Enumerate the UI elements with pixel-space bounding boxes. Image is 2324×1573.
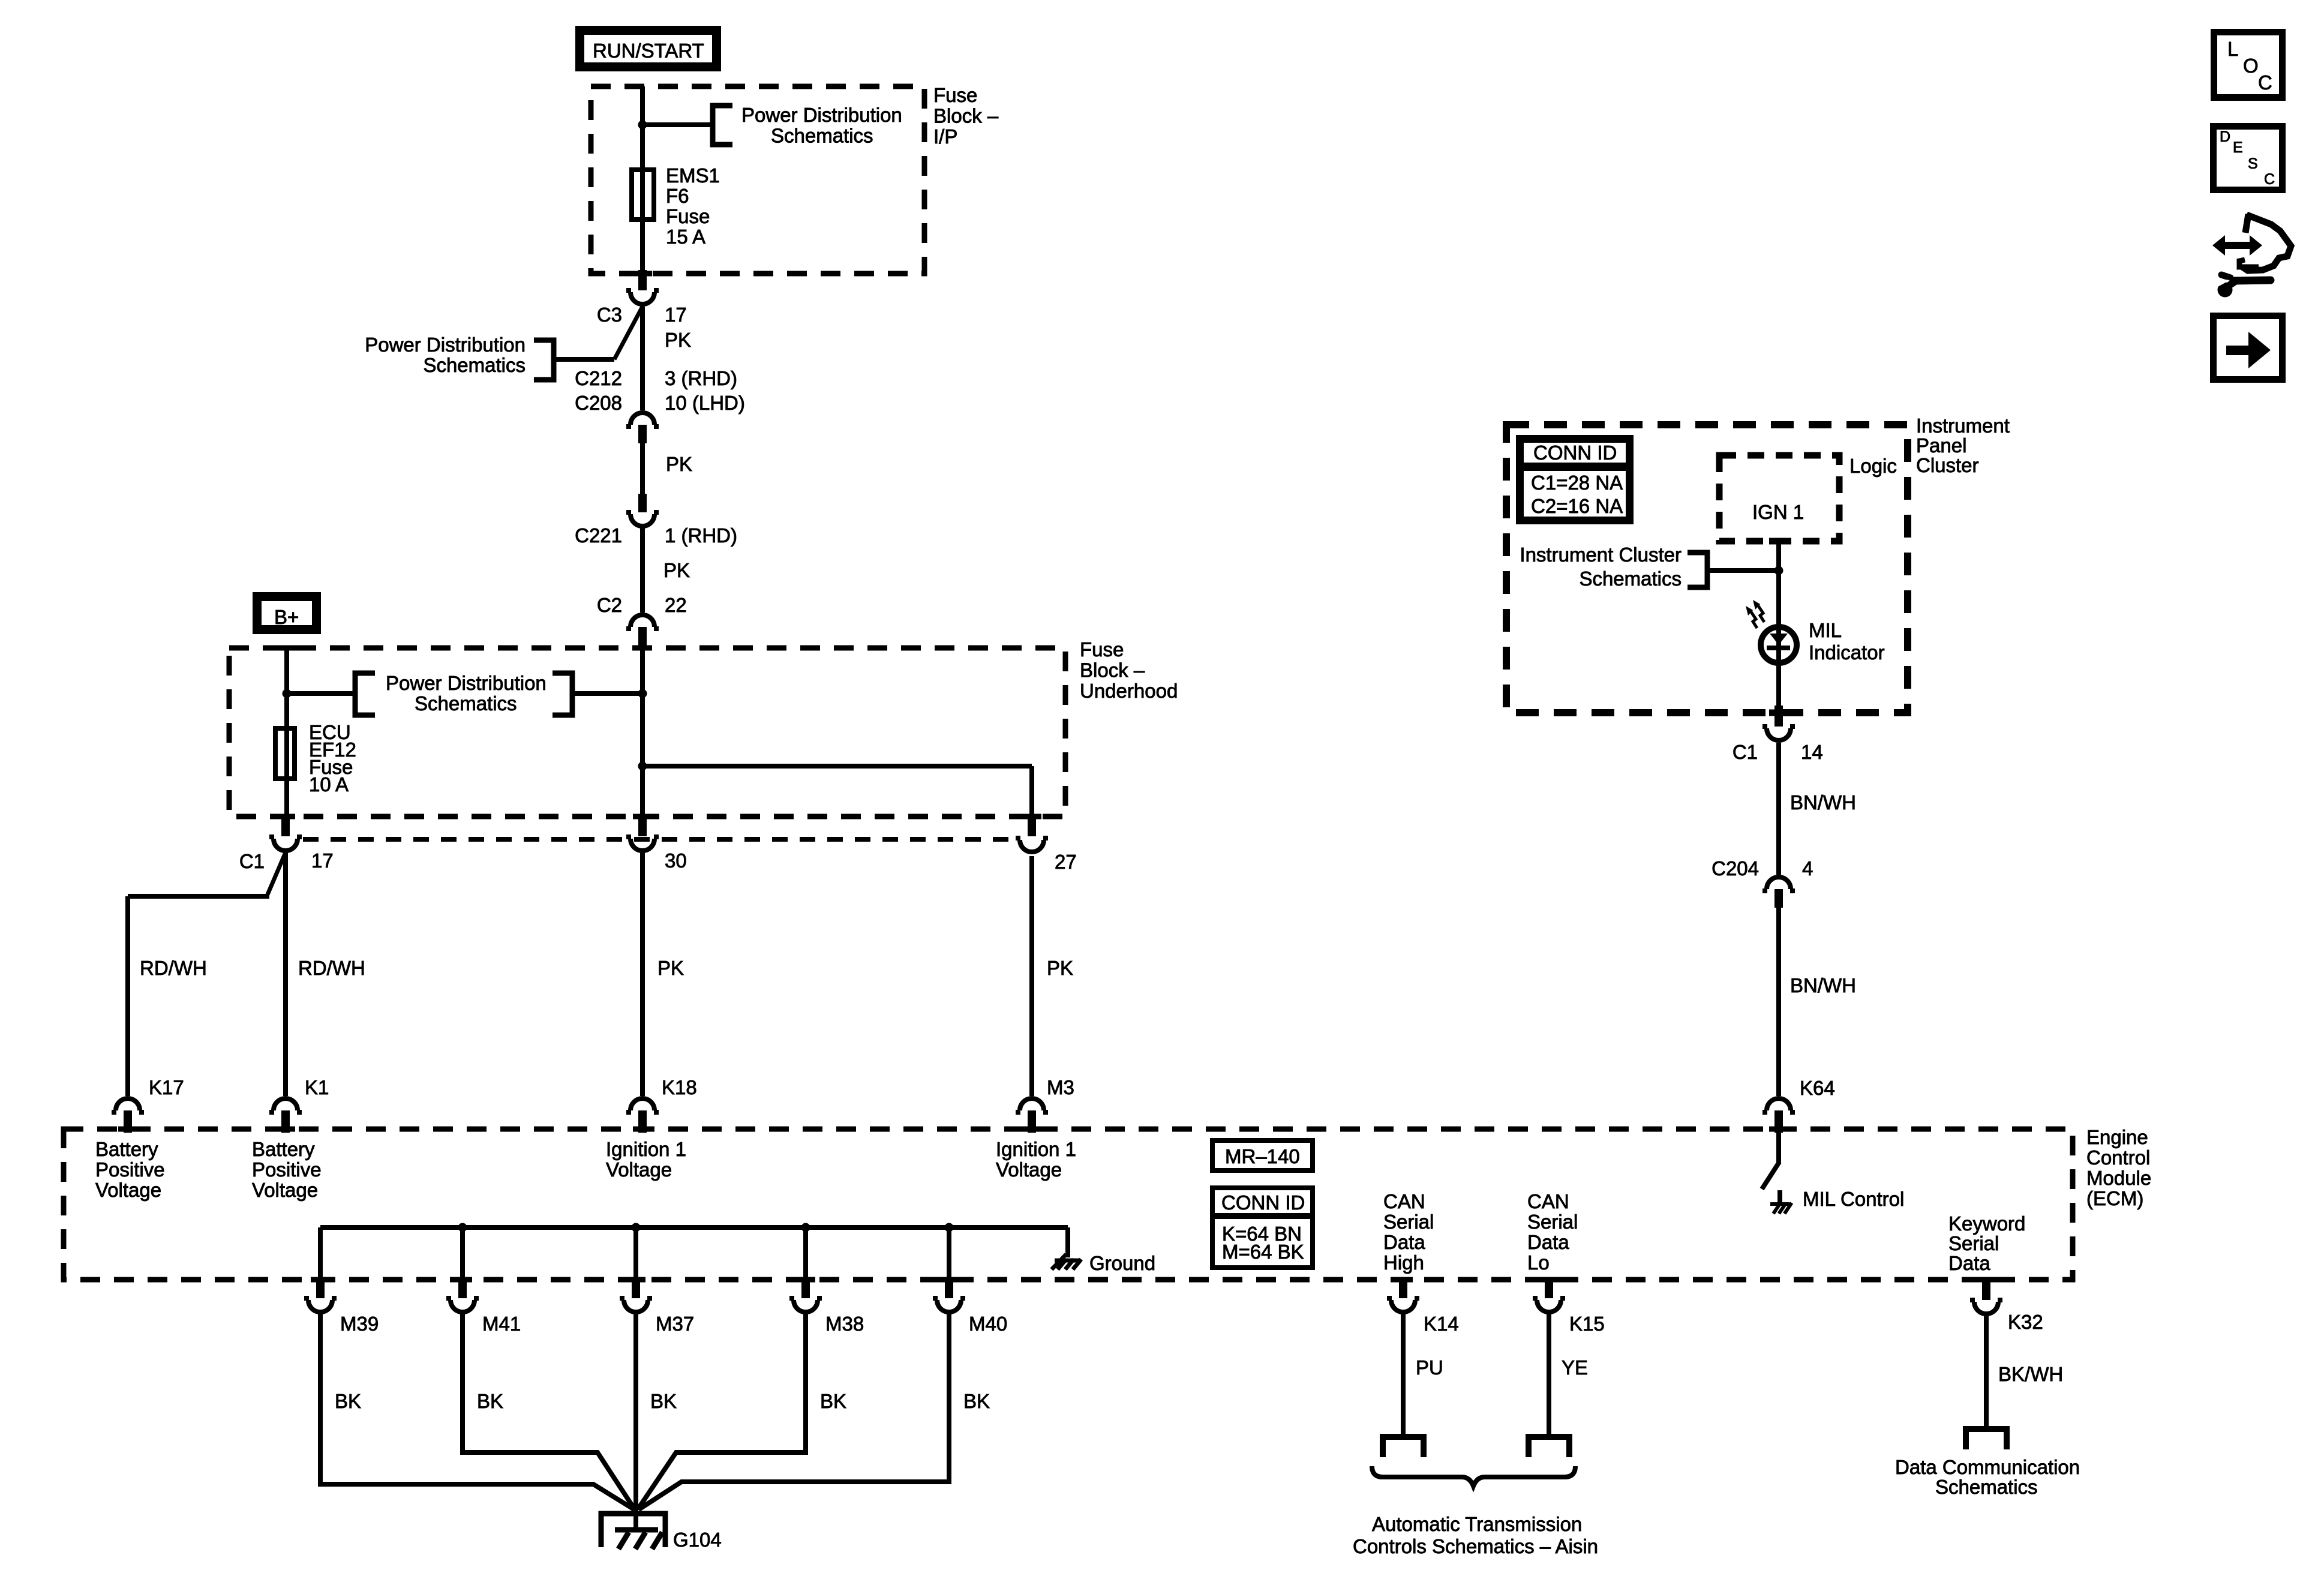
ground wire drop x=1582 xyxy=(947,1227,951,1280)
svg-text:Ground: Ground xyxy=(1089,1252,1155,1274)
svg-text:MIL Control: MIL Control xyxy=(1803,1188,1904,1210)
svg-text:Voltage: Voltage xyxy=(606,1158,672,1181)
svg-text:Engine: Engine xyxy=(2086,1126,2148,1148)
fuse block underhood dashed box xyxy=(229,648,1065,816)
svg-text:(ECM): (ECM) xyxy=(2086,1187,2143,1209)
connector terminal M38 xyxy=(789,1298,822,1312)
svg-text:CONN ID: CONN ID xyxy=(1533,442,1617,464)
junction ignition branch xyxy=(638,762,647,771)
wire to power distribution tab xyxy=(642,122,713,127)
connector K64 upper half at ECM xyxy=(1762,1098,1795,1112)
svg-text:C212: C212 xyxy=(575,367,622,389)
branch wire to pin 27 xyxy=(642,764,1032,769)
svg-text:BK: BK xyxy=(477,1390,503,1412)
junction on B+ wire xyxy=(283,689,292,698)
dash segment at ECM top x=476 xyxy=(276,1127,295,1132)
connector C212/C208 upper half xyxy=(626,413,659,427)
svg-text:4: 4 xyxy=(1802,857,1813,879)
ground wire M38 to G104 xyxy=(638,1314,806,1509)
dash segment at ECM bottom x=2339 xyxy=(1394,1277,1413,1283)
svg-text:14: 14 xyxy=(1801,741,1823,763)
MIL control chassis ground xyxy=(1770,1203,1792,1214)
svg-text:CAN: CAN xyxy=(1527,1190,1569,1212)
icon wrench jaw notch xyxy=(2212,278,2230,287)
svg-text:PK: PK xyxy=(657,957,684,979)
svg-text:K32: K32 xyxy=(2008,1311,2043,1333)
svg-text:Positive: Positive xyxy=(252,1158,322,1181)
svg-text:PK: PK xyxy=(666,453,692,475)
brace to automatic transmission schematics xyxy=(1372,1466,1575,1486)
junction to instrument cluster schematics xyxy=(1774,566,1783,575)
dash segment at ECM bottom x=1343 xyxy=(796,1277,815,1283)
icon wrench upper jaw xyxy=(2221,275,2230,278)
connector terminal K15 xyxy=(1533,1298,1565,1312)
svg-text:C221: C221 xyxy=(575,524,622,547)
svg-text:RUN/START: RUN/START xyxy=(593,40,704,62)
connector K1 upper half at ECM xyxy=(269,1098,302,1112)
svg-text:G104: G104 xyxy=(673,1529,722,1551)
svg-text:PU: PU xyxy=(1416,1356,1443,1379)
svg-text:M40: M40 xyxy=(969,1313,1007,1335)
connector C1 pin 17 female half xyxy=(269,837,302,851)
connector C3 pin stub xyxy=(638,270,647,290)
wire BN/WH C204 to K64 xyxy=(1776,908,1781,1096)
connector C1 pin 17 stub xyxy=(281,814,290,836)
ground wire M41 to G104 xyxy=(463,1314,635,1509)
svg-text:15 A: 15 A xyxy=(666,226,705,248)
svg-text:Schematics: Schematics xyxy=(1935,1476,2038,1498)
connector terminal M41 xyxy=(446,1298,479,1312)
svg-text:C1=28 NA: C1=28 NA xyxy=(1531,472,1623,494)
svg-text:Schematics: Schematics xyxy=(771,125,873,147)
MIL indicator lamp circle xyxy=(1761,627,1797,663)
MIL indicator LED triangle xyxy=(1770,634,1788,645)
ECM ground symbol xyxy=(1052,1254,1081,1269)
svg-text:D: D xyxy=(2220,128,2230,145)
ground wire drop x=534 xyxy=(318,1227,323,1280)
svg-text:Block –: Block – xyxy=(1080,659,1145,682)
svg-text:K1: K1 xyxy=(305,1076,329,1098)
svg-text:MIL: MIL xyxy=(1809,619,1842,641)
svg-text:K17: K17 xyxy=(149,1076,184,1098)
wire B+ feed to fuse ECU xyxy=(284,648,289,728)
connector C2 upper half xyxy=(626,615,659,629)
svg-text:M37: M37 xyxy=(656,1313,694,1335)
svg-text:PK: PK xyxy=(665,329,691,351)
terminal K32 stub xyxy=(1982,1277,1990,1300)
svg-text:Power Distribution: Power Distribution xyxy=(741,104,902,126)
svg-text:Positive: Positive xyxy=(95,1158,165,1181)
fuse ECU EF12 body xyxy=(275,728,295,779)
off-page connector under K15 xyxy=(1529,1437,1569,1457)
K17 wire RD/WH xyxy=(125,896,130,1096)
wire BN/WH C1 to C204 xyxy=(1776,743,1781,875)
diagonal from pin17 to K17 branch xyxy=(268,852,286,894)
wire to instrument cluster tab xyxy=(1710,568,1779,573)
icon next-arrow box xyxy=(2214,316,2283,380)
icon wrench lower lobe xyxy=(2218,283,2233,298)
svg-text:Lo: Lo xyxy=(1527,1251,1550,1274)
svg-text:M41: M41 xyxy=(482,1313,521,1335)
wire PU from K14 xyxy=(1401,1314,1406,1437)
connector K18 stub into ECM xyxy=(638,1110,647,1133)
wire ignition down underhood xyxy=(640,649,645,819)
svg-text:E: E xyxy=(2233,139,2243,156)
svg-text:RD/WH: RD/WH xyxy=(140,957,207,979)
fuse EMS1 F6 body xyxy=(632,170,654,220)
connector C204 stub xyxy=(1774,889,1783,908)
svg-text:Logic: Logic xyxy=(1849,455,1897,477)
connector terminal M39 xyxy=(304,1298,337,1312)
MR-140 box xyxy=(1212,1140,1313,1170)
dash segment at ECM top x=1720 xyxy=(1022,1127,1041,1132)
svg-text:10 A: 10 A xyxy=(309,773,349,795)
connector terminal M40 xyxy=(933,1298,965,1312)
svg-text:I/P: I/P xyxy=(933,125,957,148)
wire PK segment C221 to C2 xyxy=(640,527,645,613)
svg-text:C2=16 NA: C2=16 NA xyxy=(1531,495,1623,517)
off-page tab power distribution (C212 ref) xyxy=(534,340,554,380)
dash segment at C2 crossing xyxy=(633,646,652,651)
svg-text:Fuse: Fuse xyxy=(666,205,710,227)
svg-text:C1: C1 xyxy=(1733,741,1758,763)
svg-text:Data Communication: Data Communication xyxy=(1895,1456,2080,1478)
svg-text:Fuse: Fuse xyxy=(933,84,977,106)
icon harness mouth hook xyxy=(2239,260,2259,267)
dash segment at ECM bottom x=1060 xyxy=(626,1277,645,1283)
connector C2 stub xyxy=(638,627,647,649)
svg-text:IGN 1: IGN 1 xyxy=(1752,501,1804,523)
terminal K15 stub xyxy=(1545,1277,1553,1298)
svg-text:Serial: Serial xyxy=(1527,1211,1578,1233)
terminal M39 stub xyxy=(316,1277,325,1298)
connector K64 stub into ECM xyxy=(1774,1110,1783,1133)
off-page tab power distribution (underhood right) xyxy=(553,673,572,715)
connector M3 stub into ECM xyxy=(1028,1110,1036,1133)
svg-text:Fuse: Fuse xyxy=(1080,638,1124,661)
svg-text:Cluster: Cluster xyxy=(1916,454,1979,476)
svg-text:Keyword: Keyword xyxy=(1948,1212,2025,1235)
off-page tab power distribution (underhood left) xyxy=(355,673,375,715)
connector C3 female half xyxy=(626,290,659,304)
ground wire M39 to G104 xyxy=(320,1314,634,1509)
ground bus drop to chassis xyxy=(1065,1227,1070,1257)
ground wire drop x=1343 xyxy=(803,1227,808,1280)
power feed B+ box xyxy=(257,597,317,630)
svg-text:Controls Schematics – Aisin: Controls Schematics – Aisin xyxy=(1353,1535,1598,1557)
wire fuse ECU to pin 17 xyxy=(284,781,289,819)
svg-text:L: L xyxy=(2227,38,2238,60)
wire right tab to ignition wire xyxy=(572,691,642,696)
dash segment at underhood bottom x=1720 xyxy=(1022,814,1041,819)
wire PK segment below C3 xyxy=(640,307,645,410)
instrument panel cluster dashed box xyxy=(1506,425,1908,713)
svg-text:27: 27 xyxy=(1055,851,1077,873)
ground wire M40 to G104 xyxy=(639,1314,949,1509)
off-page tab instrument cluster schematics xyxy=(1688,553,1707,587)
svg-text:K18: K18 xyxy=(662,1076,697,1098)
icon harness double arrow xyxy=(2212,235,2262,256)
ground wire drop x=1060 xyxy=(633,1227,638,1280)
svg-text:Instrument Cluster: Instrument Cluster xyxy=(1520,544,1682,566)
K1 wire RD/WH xyxy=(283,852,288,1096)
dash segment at ECM bottom x=534 xyxy=(311,1277,330,1283)
svg-text:Schematics: Schematics xyxy=(423,354,526,376)
svg-text:O: O xyxy=(2243,55,2259,77)
MIL indicator LED cathode bar xyxy=(1767,646,1790,650)
dash segment at ECM bottom x=771 xyxy=(453,1277,472,1283)
wire BK/WH from K32 xyxy=(1984,1316,1989,1429)
icon wrench bridge xyxy=(2228,281,2235,286)
dash segment at ECM bottom x=2582 xyxy=(1539,1277,1559,1283)
CONN ID box (IPC) xyxy=(1520,439,1630,521)
svg-text:M=64 BK: M=64 BK xyxy=(1222,1241,1304,1263)
svg-text:CONN ID: CONN ID xyxy=(1221,1191,1305,1214)
svg-text:BK: BK xyxy=(963,1390,990,1412)
svg-text:Voltage: Voltage xyxy=(252,1179,318,1201)
svg-text:Serial: Serial xyxy=(1383,1211,1434,1233)
svg-text:C: C xyxy=(2258,71,2272,94)
icon harness connector stub xyxy=(2245,214,2248,233)
dash segment at ECM top x=1071 xyxy=(633,1127,652,1132)
svg-text:BK/WH: BK/WH xyxy=(1998,1363,2063,1385)
icon DESC box xyxy=(2214,127,2283,190)
terminal M38 stub xyxy=(801,1277,810,1298)
branch wire down to pin 27 xyxy=(1029,766,1034,819)
svg-text:K64: K64 xyxy=(1800,1077,1835,1099)
MIL control switch blade xyxy=(1762,1162,1779,1189)
svg-text:BK: BK xyxy=(650,1390,677,1412)
terminal M40 stub xyxy=(945,1277,953,1298)
svg-text:17: 17 xyxy=(311,849,334,872)
svg-text:BN/WH: BN/WH xyxy=(1790,791,1856,813)
ground wire M37 to G104 xyxy=(633,1314,638,1531)
svg-text:Block –: Block – xyxy=(933,105,999,127)
svg-text:Automatic Transmission: Automatic Transmission xyxy=(1372,1513,1582,1535)
svg-text:Data: Data xyxy=(1527,1231,1569,1253)
svg-text:C208: C208 xyxy=(575,392,622,414)
svg-text:PK: PK xyxy=(663,559,690,581)
icon wrench handle xyxy=(2234,280,2271,281)
svg-text:22: 22 xyxy=(665,594,687,616)
CONN ID box (ECM) xyxy=(1212,1188,1313,1268)
wire IGN1 to MIL indicator xyxy=(1776,541,1781,708)
junction on ground bus x=1343 xyxy=(801,1223,810,1232)
off-page tab power distribution (I/P) xyxy=(713,106,732,145)
svg-text:B+: B+ xyxy=(274,606,299,628)
svg-text:High: High xyxy=(1383,1251,1424,1274)
branch wire to power distribution tab xyxy=(556,357,614,362)
wire YE from K15 xyxy=(1547,1314,1551,1437)
CONN ID (IPC) divider xyxy=(1516,463,1634,471)
fuse block I/P dashed box xyxy=(591,86,924,274)
pin 30 female half xyxy=(626,837,659,851)
connector C204 upper half xyxy=(1762,877,1795,891)
MIL control ground stub xyxy=(1777,1190,1782,1203)
svg-text:Instrument: Instrument xyxy=(1916,415,2010,437)
svg-text:Indicator: Indicator xyxy=(1809,641,1885,664)
connector terminal K32 xyxy=(1970,1300,2002,1314)
wire K64 to MIL control switch xyxy=(1776,1133,1781,1163)
pin 27 female half xyxy=(1016,838,1048,852)
connector terminal K14 xyxy=(1387,1298,1419,1312)
dash segment at underhood bottom x=476 xyxy=(276,814,295,819)
svg-text:M38: M38 xyxy=(825,1313,864,1335)
svg-text:M3: M3 xyxy=(1047,1076,1074,1098)
svg-text:Voltage: Voltage xyxy=(95,1179,161,1201)
wire through fuse EMS1 xyxy=(640,167,645,222)
engine control module dashed box xyxy=(64,1129,2073,1280)
dash segment at underhood bottom x=1071 xyxy=(633,814,652,819)
svg-text:C2: C2 xyxy=(597,594,622,616)
svg-text:BN/WH: BN/WH xyxy=(1790,974,1856,996)
MIL indicator light arrow 2 xyxy=(1751,612,1757,628)
junction on ground bus x=771 xyxy=(458,1223,467,1232)
terminal M41 stub xyxy=(458,1277,467,1298)
icon next-arrow glyph xyxy=(2226,332,2271,368)
MIL indicator light arrow 1 xyxy=(1758,606,1764,622)
svg-text:Serial: Serial xyxy=(1948,1232,1999,1254)
svg-text:BK: BK xyxy=(335,1390,361,1412)
svg-text:Data: Data xyxy=(1383,1231,1425,1253)
dash segment at logic box exit xyxy=(1769,538,1788,545)
svg-text:Voltage: Voltage xyxy=(996,1158,1062,1181)
wire through fuse ECU xyxy=(284,726,289,781)
svg-text:K15: K15 xyxy=(1569,1313,1605,1335)
connector K17 stub into ECM xyxy=(124,1110,132,1133)
dash segment at ECM bottom x=1582 xyxy=(939,1277,959,1283)
dash segment at ECM bottom x=3311 xyxy=(1977,1277,1996,1283)
svg-text:Schematics: Schematics xyxy=(1579,568,1682,590)
junction on ground bus x=1582 xyxy=(945,1223,954,1232)
connector row line (underhood C1) xyxy=(303,837,1013,842)
branch diagonal to power distribution tab xyxy=(614,307,642,359)
svg-text:Ignition 1: Ignition 1 xyxy=(996,1138,1076,1160)
svg-text:Module: Module xyxy=(2086,1167,2151,1189)
svg-text:17: 17 xyxy=(665,304,687,326)
svg-text:K14: K14 xyxy=(1424,1313,1459,1335)
wire PK segment C208 to C221 xyxy=(640,443,645,496)
K18 wire PK xyxy=(640,852,645,1096)
svg-text:Power Distribution: Power Distribution xyxy=(386,672,547,694)
dash segment at C3 crossing xyxy=(633,271,652,277)
svg-text:Control: Control xyxy=(2086,1146,2150,1169)
svg-text:Schematics: Schematics xyxy=(415,692,517,715)
connector C221 female half xyxy=(626,512,659,526)
ground wire drop x=771 xyxy=(460,1227,465,1280)
K17 branch horizontal xyxy=(128,894,269,899)
connector C1 (IPC) stub xyxy=(1774,706,1783,727)
svg-text:S: S xyxy=(2248,155,2258,172)
svg-text:CAN: CAN xyxy=(1383,1190,1425,1212)
connector M3 upper half at ECM xyxy=(1016,1098,1048,1112)
svg-text:YE: YE xyxy=(1562,1356,1588,1379)
junction on ground bus x=1060 xyxy=(632,1223,641,1232)
wire fuse EMS1 to connector C3 xyxy=(640,222,645,273)
svg-text:C3: C3 xyxy=(597,304,622,326)
svg-text:Battery: Battery xyxy=(252,1138,315,1160)
connector K17 upper half at ECM xyxy=(112,1098,144,1112)
dash segment at ECM top x=213 xyxy=(118,1127,137,1132)
svg-text:BK: BK xyxy=(820,1390,846,1412)
terminal K14 stub xyxy=(1399,1277,1407,1298)
svg-text:Panel: Panel xyxy=(1916,434,1966,457)
CONN ID box divider xyxy=(1210,1213,1315,1219)
connector C212/C208 stub xyxy=(638,425,647,443)
ground G104 chassis symbol xyxy=(615,1530,662,1549)
svg-text:EMS1: EMS1 xyxy=(666,164,720,187)
svg-text:C1: C1 xyxy=(239,850,265,872)
svg-text:10 (LHD): 10 (LHD) xyxy=(665,392,745,414)
terminal M37 stub xyxy=(632,1277,640,1298)
pin 27 stub xyxy=(1028,814,1036,836)
M3 wire PK xyxy=(1029,856,1034,1096)
icon harness outline xyxy=(2242,215,2291,271)
svg-text:MR–140: MR–140 xyxy=(1225,1145,1300,1167)
svg-text:Power Distribution: Power Distribution xyxy=(365,334,526,356)
svg-text:Battery: Battery xyxy=(95,1138,158,1160)
wire junction to left tab xyxy=(287,691,355,696)
svg-text:3 (RHD): 3 (RHD) xyxy=(665,367,737,389)
ECM internal ground bus xyxy=(320,1225,1068,1230)
power feed RUN/START box xyxy=(580,31,717,67)
svg-text:M39: M39 xyxy=(340,1313,379,1335)
connector terminal M37 xyxy=(620,1298,652,1312)
junction in fuse block I/P xyxy=(638,121,647,130)
dash segment at B+ wire crossing xyxy=(277,646,296,651)
dash segment at ECM top x=2965 xyxy=(1769,1127,1788,1132)
connector K18 upper half at ECM xyxy=(626,1098,659,1112)
svg-text:Data: Data xyxy=(1948,1252,1990,1274)
svg-text:30: 30 xyxy=(665,849,687,872)
svg-text:F6: F6 xyxy=(666,185,689,207)
connector C221 stub xyxy=(638,494,647,512)
svg-text:Underhood: Underhood xyxy=(1080,680,1178,702)
connector K1 stub into ECM xyxy=(281,1110,290,1133)
junction on ignition wire xyxy=(638,689,647,698)
svg-text:RD/WH: RD/WH xyxy=(298,957,365,979)
dash segment at IPC bottom crossing xyxy=(1769,710,1788,716)
svg-text:1 (RHD): 1 (RHD) xyxy=(665,524,737,547)
icon LOC box xyxy=(2214,32,2283,98)
off-page connector under K14 xyxy=(1383,1437,1424,1457)
ground G104 frame xyxy=(601,1514,665,1547)
svg-text:Ignition 1: Ignition 1 xyxy=(606,1138,686,1160)
svg-text:C204: C204 xyxy=(1712,857,1759,879)
off-page connector under K32 xyxy=(1966,1429,2007,1449)
wire RUN/START feed to fuse EMS1 xyxy=(640,86,645,170)
pin 30 stub xyxy=(638,814,647,836)
logic dashed box xyxy=(1719,455,1839,541)
connector C1 (IPC) female half xyxy=(1762,727,1795,740)
svg-text:C: C xyxy=(2264,171,2275,188)
svg-text:PK: PK xyxy=(1047,957,1073,979)
